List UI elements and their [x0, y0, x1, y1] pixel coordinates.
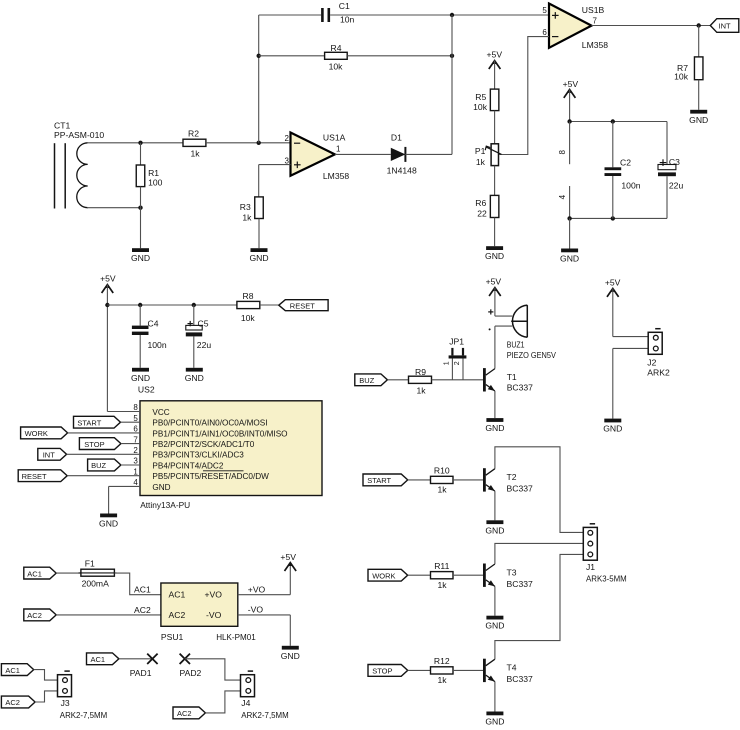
wire pin4 stub: [569, 186, 571, 218]
svg-text:22u: 22u: [669, 181, 684, 191]
svg-text:J2: J2: [647, 358, 656, 368]
wire: [260, 304, 279, 306]
svg-text:GND: GND: [249, 253, 268, 263]
junction: [138, 303, 196, 307]
svg-text:PB1/PCINT1/AIN1/OC0B/INT0/MISO: PB1/PCINT1/AIN1/OC0B/INT0/MISO: [152, 429, 287, 438]
ground: [689, 110, 708, 125]
svg-text:AC1: AC1: [91, 655, 106, 664]
svg-text:5: 5: [133, 414, 138, 423]
svg-text:R12: R12: [434, 656, 450, 666]
svg-text:8: 8: [133, 403, 138, 412]
svg-text:R5: R5: [475, 92, 486, 102]
wire collector T2: [495, 447, 583, 533]
svg-text:R8: R8: [243, 291, 254, 301]
wire: [121, 464, 140, 466]
flag INT: [710, 19, 739, 33]
wire pin4: [109, 486, 140, 513]
wire: [570, 121, 667, 123]
diode D1: [387, 132, 417, 175]
svg-text:R9: R9: [415, 367, 426, 377]
svg-text:AC2: AC2: [134, 605, 151, 615]
svg-text:10k: 10k: [329, 62, 344, 72]
svg-text:100: 100: [148, 178, 163, 188]
svg-text:1: 1: [444, 361, 451, 365]
power +5V: [605, 277, 621, 297]
svg-text:GND: GND: [152, 483, 170, 492]
svg-text:R1: R1: [148, 168, 159, 178]
wire: [494, 61, 496, 90]
svg-text:HLK-PM01: HLK-PM01: [216, 632, 256, 642]
svg-text:C5: C5: [198, 318, 209, 328]
svg-text:INT: INT: [43, 451, 56, 460]
flag AC2: [24, 609, 56, 621]
resistor R9: [409, 367, 432, 395]
wire: [206, 142, 291, 144]
resistor R1: [136, 143, 162, 208]
power +5V: [100, 273, 116, 293]
svg-text:10k: 10k: [473, 102, 488, 112]
svg-text:PB2/PCINT2/SCK/ADC1/T0: PB2/PCINT2/SCK/ADC1/T0: [152, 440, 254, 449]
ground: [131, 248, 150, 263]
flag RESET: [279, 300, 328, 311]
wire: [494, 166, 496, 196]
wire: [613, 348, 648, 418]
wire pin8 stub: [569, 122, 571, 165]
wire: [35, 691, 57, 702]
wire wiper: [502, 154, 528, 156]
svg-text:1N4148: 1N4148: [387, 165, 417, 175]
connector J2: [647, 329, 670, 378]
svg-text:-VO: -VO: [248, 604, 264, 614]
wire: [495, 288, 512, 317]
junction: [697, 23, 701, 27]
svg-text:AC1: AC1: [134, 585, 151, 595]
wire: [453, 574, 483, 576]
wire: [185, 659, 241, 680]
svg-text:GND: GND: [603, 424, 622, 434]
svg-text:BUZ: BUZ: [91, 461, 106, 470]
ground: [185, 368, 204, 383]
wire: [107, 304, 237, 306]
svg-text:T3: T3: [507, 567, 517, 577]
connector J3: [58, 671, 108, 720]
svg-text:R4: R4: [331, 43, 342, 53]
svg-text:4: 4: [558, 194, 567, 199]
svg-text:START: START: [77, 418, 101, 427]
svg-text:PB5/PCINT5/RESET/ADC0/DW: PB5/PCINT5/RESET/ADC0/DW: [152, 472, 269, 481]
svg-text:GND: GND: [485, 251, 504, 261]
op-amp US1B: [542, 4, 608, 50]
flag BUZ: [355, 374, 388, 386]
svg-text:LM358: LM358: [582, 40, 608, 50]
svg-text:200mA: 200mA: [82, 579, 109, 589]
svg-text:US1B: US1B: [582, 5, 605, 15]
svg-text:P1: P1: [475, 146, 486, 156]
label plus: [488, 309, 493, 314]
ground: [485, 246, 504, 261]
wire: [56, 572, 80, 574]
wire: [569, 218, 571, 248]
label pin 8: [558, 150, 567, 155]
svg-text:+5V: +5V: [280, 552, 296, 562]
svg-text:ARK2-7,5MM: ARK2-7,5MM: [60, 710, 107, 720]
flag WORK: [21, 427, 68, 439]
resistor R3: [240, 197, 263, 223]
svg-text:R11: R11: [434, 561, 449, 571]
svg-text:2: 2: [285, 134, 290, 143]
svg-text:C1: C1: [339, 1, 350, 11]
svg-text:J4: J4: [241, 698, 250, 708]
wire: [570, 217, 667, 219]
wire: [698, 80, 700, 110]
resistor R11: [431, 561, 454, 590]
wire: [121, 421, 141, 423]
junction: [450, 13, 454, 17]
wire emitter: [494, 682, 496, 712]
svg-text:ARK3-5MM: ARK3-5MM: [586, 573, 627, 583]
capacitor C4: [132, 305, 167, 368]
PSU PSU1: [161, 583, 256, 642]
svg-text:ARK2: ARK2: [647, 368, 670, 378]
resistor R7: [674, 26, 703, 82]
svg-text:2: 2: [454, 361, 461, 365]
capacitor C5: [186, 305, 212, 368]
ground: [131, 368, 150, 383]
transistor T3: [483, 564, 533, 589]
flag AC2: [173, 707, 205, 719]
wire: [494, 218, 496, 247]
svg-text:6: 6: [542, 28, 547, 37]
svg-text:4: 4: [133, 478, 138, 487]
label AC2: [134, 605, 151, 615]
wire: [205, 691, 240, 713]
svg-text:+5V: +5V: [487, 50, 503, 60]
label -VO: [248, 604, 264, 614]
wire emitter: [494, 586, 496, 615]
svg-text:GND: GND: [485, 621, 504, 631]
ground: [485, 520, 504, 535]
wire: [408, 574, 431, 576]
svg-text:AC1: AC1: [27, 569, 42, 578]
svg-text:US2: US2: [138, 385, 155, 395]
wire pin8: [107, 411, 140, 413]
svg-text:T1: T1: [507, 372, 517, 382]
no-connect PAD1: [130, 654, 158, 678]
svg-text:J3: J3: [61, 698, 70, 708]
resistor R8: [237, 291, 260, 323]
svg-text:GND: GND: [485, 525, 504, 535]
svg-text:R2: R2: [188, 129, 199, 139]
svg-text:WORK: WORK: [25, 429, 48, 438]
transformer CT1 core: [55, 143, 66, 208]
svg-text:PB0/PCINT0/AIN0/OC0A/MOSI: PB0/PCINT0/AIN0/OC0A/MOSI: [152, 419, 267, 428]
wire: [67, 453, 140, 455]
wire collector: [495, 326, 512, 369]
svg-text:JP1: JP1: [449, 336, 464, 346]
wire: [569, 90, 571, 122]
svg-text:R3: R3: [240, 202, 251, 212]
wire: [258, 15, 260, 143]
no-connect PAD2: [180, 654, 202, 678]
svg-text:START: START: [367, 476, 391, 485]
wire: [387, 379, 408, 381]
svg-text:R10: R10: [434, 466, 450, 476]
label CT1: [54, 120, 104, 140]
svg-text:PP-ASM-010: PP-ASM-010: [54, 130, 104, 140]
svg-text:STOP: STOP: [84, 440, 104, 449]
svg-text:+5V: +5V: [563, 79, 579, 89]
wire: [453, 669, 483, 671]
wire: [453, 479, 483, 481]
svg-text:+VO: +VO: [248, 584, 266, 594]
svg-text:GND: GND: [560, 254, 579, 264]
flag RESET: [18, 470, 67, 482]
svg-text:T2: T2: [507, 472, 517, 482]
wire collector T3: [495, 543, 583, 564]
svg-text:5: 5: [542, 6, 547, 15]
flag AC1: [24, 567, 56, 579]
svg-text:GND: GND: [131, 373, 150, 383]
wire pin3: [259, 165, 291, 197]
svg-text:RESET: RESET: [22, 472, 47, 481]
wire: [335, 153, 391, 155]
flag START: [363, 474, 408, 486]
svg-text:3: 3: [133, 457, 138, 466]
wire: [68, 432, 140, 434]
svg-text:AC2: AC2: [169, 610, 186, 620]
svg-text:1: 1: [133, 467, 138, 476]
wire +VO: [238, 563, 290, 595]
ground: [281, 646, 300, 661]
IC US2 Attiny13A: [133, 385, 322, 510]
svg-text:Attiny13A-PU: Attiny13A-PU: [140, 500, 190, 510]
wire: [408, 669, 431, 671]
connector J4: [241, 671, 289, 720]
svg-text:AC2: AC2: [177, 709, 192, 718]
junction: [138, 141, 142, 210]
svg-text:AC2: AC2: [27, 611, 42, 620]
resistor R12: [431, 656, 454, 685]
transistor T2: [483, 468, 533, 493]
svg-text:C3: C3: [669, 157, 680, 167]
junction node A: [257, 141, 261, 145]
svg-text:PIEZO GEN5V: PIEZO GEN5V: [507, 350, 556, 360]
svg-text:+VO: +VO: [205, 590, 223, 600]
transformer CT1 winding: [77, 143, 88, 208]
svg-text:1k: 1k: [242, 212, 252, 222]
svg-text:C2: C2: [620, 158, 631, 168]
svg-text:BUZ: BUZ: [359, 376, 374, 385]
svg-text:100n: 100n: [148, 340, 167, 350]
wire: [87, 207, 141, 209]
power +5V: [280, 552, 296, 571]
capacitor C1: [321, 1, 354, 25]
junction: [567, 216, 615, 220]
wire: [67, 475, 140, 477]
label minus: [489, 328, 491, 330]
junction: [257, 54, 261, 58]
wire: [34, 670, 58, 681]
svg-text:GND: GND: [485, 717, 504, 727]
resistor R10: [431, 466, 454, 495]
flag STOP: [368, 665, 408, 677]
svg-text:22: 22: [477, 208, 487, 218]
wire: [56, 614, 161, 616]
wire -VO: [238, 615, 290, 646]
svg-text:6: 6: [133, 425, 138, 434]
svg-text:1k: 1k: [190, 149, 200, 159]
capacitor C2: [605, 122, 641, 219]
wire: [451, 15, 453, 154]
wire: [258, 219, 260, 249]
transistor T1: [483, 368, 533, 392]
svg-text:2: 2: [133, 446, 138, 455]
resistor R4: [259, 43, 452, 72]
svg-text:7: 7: [133, 435, 138, 444]
label pin 4: [558, 194, 567, 199]
fuse F1: [79, 558, 117, 588]
svg-text:VCC: VCC: [152, 408, 169, 417]
wire: [432, 379, 484, 381]
svg-text:C4: C4: [148, 318, 159, 328]
op-amp US1A: [285, 132, 350, 181]
label AC1: [134, 585, 151, 595]
svg-text:1k: 1k: [437, 485, 447, 495]
svg-text:WORK: WORK: [372, 571, 395, 580]
wire emitter: [494, 391, 496, 418]
svg-text:AC2: AC2: [5, 698, 20, 707]
ground: [249, 248, 268, 263]
svg-text:T4: T4: [507, 663, 517, 673]
svg-text:F1: F1: [85, 558, 95, 568]
svg-text:RESET: RESET: [290, 301, 315, 310]
flag AC1: [1, 664, 33, 676]
ground: [485, 712, 504, 727]
junction: [105, 303, 109, 307]
svg-text:PSU1: PSU1: [161, 632, 184, 642]
wire: [115, 573, 161, 595]
flag WORK: [368, 569, 408, 581]
capacitor C3: [658, 122, 683, 219]
wire: [330, 14, 549, 16]
svg-text:CT1: CT1: [54, 120, 70, 130]
flag BUZ: [88, 459, 121, 471]
buzzer BUZ1: [507, 305, 556, 360]
junction: [450, 54, 454, 58]
ground: [99, 514, 118, 529]
svg-text:LM358: LM358: [323, 171, 349, 181]
connector J1: [583, 524, 626, 584]
svg-text:PB3/PCINT3/CLKI/ADC3: PB3/PCINT3/CLKI/ADC3: [152, 451, 244, 460]
svg-text:R6: R6: [475, 198, 486, 208]
svg-text:10k: 10k: [674, 71, 689, 81]
wire: [259, 14, 322, 16]
wire: [405, 153, 452, 155]
ground: [603, 419, 622, 434]
svg-text:GND: GND: [281, 651, 300, 661]
svg-text:INT: INT: [719, 21, 732, 30]
flag START: [74, 416, 121, 428]
svg-text:10n: 10n: [340, 15, 355, 25]
svg-text:7: 7: [593, 17, 598, 26]
svg-text:100n: 100n: [621, 181, 640, 191]
wire: [106, 285, 108, 412]
svg-text:BC337: BC337: [507, 674, 533, 684]
svg-text:BC337: BC337: [507, 383, 533, 393]
wire: [408, 479, 431, 481]
transistor T4: [483, 659, 533, 684]
wire: [494, 111, 496, 144]
power +5V: [486, 276, 502, 296]
svg-text:GND: GND: [99, 519, 118, 529]
svg-text:1k: 1k: [476, 157, 486, 167]
svg-text:GND: GND: [689, 115, 708, 125]
power +5V: [563, 79, 579, 98]
wire: [119, 658, 152, 660]
svg-text:AC1: AC1: [5, 666, 20, 675]
wire collector T4: [495, 554, 583, 659]
wire pin6: [499, 37, 549, 155]
svg-text:STOP: STOP: [372, 667, 392, 676]
ground: [485, 418, 504, 433]
svg-text:22u: 22u: [197, 340, 212, 350]
svg-text:PAD1: PAD1: [130, 668, 152, 678]
svg-text:BC337: BC337: [507, 579, 533, 589]
wire: [140, 208, 142, 249]
svg-text:8: 8: [558, 150, 567, 155]
flag INT: [38, 448, 67, 460]
ground: [485, 616, 504, 631]
flag AC1: [87, 653, 119, 665]
svg-text:US1A: US1A: [323, 132, 346, 142]
flag STOP: [79, 438, 121, 450]
wire: [87, 142, 183, 144]
svg-text:10k: 10k: [241, 313, 256, 323]
svg-text:GND: GND: [485, 423, 504, 433]
svg-text:AC1: AC1: [169, 590, 186, 600]
resistor R5: [473, 89, 499, 112]
svg-text:PB4/PCINT4/ADC2: PB4/PCINT4/ADC2: [152, 461, 223, 470]
resistor R2: [183, 129, 206, 159]
wire out: [592, 25, 711, 27]
svg-text:BC337: BC337: [507, 484, 533, 494]
junction: [567, 119, 615, 123]
svg-text:+5V: +5V: [486, 276, 502, 286]
svg-text:+5V: +5V: [100, 273, 116, 283]
svg-text:1: 1: [336, 144, 341, 153]
svg-text:GND: GND: [131, 253, 150, 263]
svg-text:-VO: -VO: [206, 610, 222, 620]
potentiometer P1: [475, 144, 502, 167]
svg-text:J1: J1: [586, 562, 595, 572]
svg-text:GND: GND: [185, 373, 204, 383]
svg-text:+5V: +5V: [605, 277, 621, 287]
jumper JP1: [444, 336, 467, 380]
svg-text:ARK2-7,5MM: ARK2-7,5MM: [241, 710, 288, 720]
flag AC2: [1, 696, 35, 708]
wire: [121, 443, 140, 445]
wire emitter: [494, 491, 496, 520]
power +5V: [487, 50, 503, 69]
wire: [613, 289, 648, 337]
ground: [560, 249, 579, 264]
svg-text:1k: 1k: [416, 385, 426, 395]
label +VO: [248, 584, 266, 594]
svg-text:BUZ1: BUZ1: [507, 340, 525, 350]
svg-text:PAD2: PAD2: [180, 668, 202, 678]
svg-text:1k: 1k: [437, 580, 447, 590]
resistor R6: [475, 195, 499, 218]
